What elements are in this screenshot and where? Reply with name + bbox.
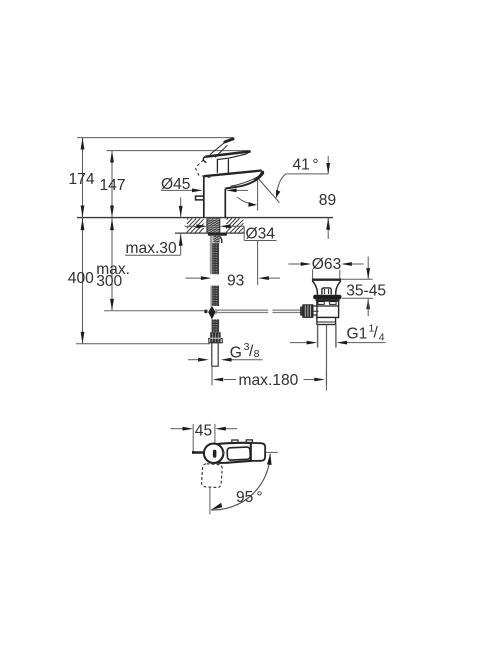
spout tip reference line	[266, 451, 278, 453]
vertical line below dashed lever	[209, 488, 211, 515]
svg-text:8: 8	[254, 348, 260, 360]
svg-text:89: 89	[319, 192, 336, 209]
countertop top line	[77, 217, 333, 219]
flange nut bar	[208, 233, 227, 236]
svg-text:G1: G1	[347, 325, 368, 342]
left boss	[313, 306, 317, 315]
lever pointing left	[193, 451, 205, 454]
slot	[213, 450, 217, 458]
svg-text:147: 147	[100, 177, 126, 194]
pivot circle	[204, 444, 223, 463]
braided hose upper	[213, 243, 219, 274]
svg-text:4: 4	[379, 331, 385, 343]
countertop bottom line	[175, 232, 244, 234]
svg-text:G: G	[230, 345, 242, 362]
countertop hatch left	[187, 218, 204, 232]
left tab	[196, 196, 204, 200]
junction diamond	[208, 306, 215, 320]
G3/8 nut	[210, 332, 220, 343]
svg-text:95°: 95°	[236, 489, 263, 506]
svg-text:max.180: max.180	[239, 372, 299, 389]
clamp nut	[303, 305, 313, 317]
horizontal rod to drain (gray double)	[216, 310, 303, 312]
raised lever thin lines	[210, 143, 224, 155]
svg-text:400: 400	[68, 270, 94, 287]
bottom reference line (400)	[76, 343, 210, 345]
spout part	[251, 443, 265, 461]
horizontal pull rod line (left thin)	[104, 310, 208, 312]
svg-text:300: 300	[96, 273, 122, 290]
body bottom collar	[317, 318, 336, 325]
41deg leader arc right	[277, 174, 286, 196]
connection tube	[212, 343, 218, 366]
raised lever tip blob	[225, 139, 233, 142]
dot	[223, 452, 225, 454]
svg-text:Ø34: Ø34	[246, 226, 276, 243]
dashed lever-down outline	[201, 464, 222, 488]
body capsule	[216, 443, 251, 463]
svg-text:41°: 41°	[293, 157, 319, 174]
small fitting below flange	[213, 236, 219, 243]
plug knob	[322, 288, 331, 295]
svg-text:93: 93	[227, 272, 244, 289]
spout tip + underside	[225, 171, 263, 189]
pull rod (gray) upper	[210, 236, 213, 274]
countertop hatch right	[226, 218, 244, 232]
rod+hose mid section	[210, 286, 212, 306]
cup (upper flange)	[312, 279, 341, 281]
neck	[216, 159, 218, 173]
body column	[203, 176, 205, 217]
spout top edge	[204, 171, 262, 177]
window	[227, 447, 250, 460]
closed lever	[205, 151, 250, 156]
svg-text:174: 174	[69, 171, 95, 188]
tailpipe	[317, 325, 319, 348]
svg-text:max.30: max.30	[126, 240, 177, 257]
svg-text:Ø63: Ø63	[312, 256, 341, 273]
top bumps	[232, 440, 238, 443]
svg-text:35-45: 35-45	[346, 282, 386, 299]
svg-text:45: 45	[195, 422, 213, 439]
hose below diamond	[212, 319, 219, 332]
dashed raised outline	[196, 160, 212, 178]
diagonal spout axis line	[258, 179, 279, 203]
waste body	[317, 301, 339, 318]
95 deg arc	[211, 454, 270, 510]
spout tip extension line	[257, 179, 259, 211]
41deg arc left	[237, 197, 255, 204]
rim (dark bar)	[313, 295, 341, 300]
svg-text:/: /	[374, 324, 379, 341]
